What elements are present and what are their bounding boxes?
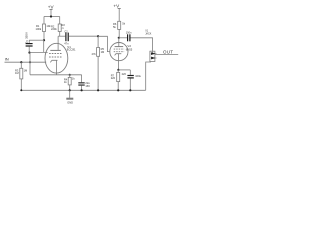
V1 cathode: [50, 60, 57, 62]
node input crossing: [29, 61, 31, 63]
svg-text:47k: 47k: [92, 52, 97, 56]
wire V1 plate to C2: [58, 35, 65, 37]
tube V1 ECC81: [45, 36, 76, 75]
V2 plate: [115, 46, 124, 48]
svg-text:IN: IN: [5, 56, 9, 61]
resistor R2: [51, 17, 65, 37]
capacitor C1 1u 350V: [25, 32, 33, 53]
capacitor C3 output: [126, 32, 132, 42]
ground: [66, 90, 73, 104]
svg-text:1k: 1k: [72, 77, 75, 81]
svg-text:5k: 5k: [122, 21, 125, 25]
node V2 plate junction: [118, 37, 120, 39]
svg-text:ECC81: ECC81: [67, 47, 76, 51]
V2 cathode lead: [117, 54, 119, 70]
resistor R3 1M grid leak: [15, 62, 27, 90]
resistor R5 V2 grid leak: [92, 36, 105, 90]
svg-text:100k: 100k: [36, 27, 42, 31]
wire input: [5, 61, 47, 63]
wire plate node to C3: [119, 37, 127, 39]
wire OUT: [155, 53, 178, 55]
capacitor C4 cathode bypass V2: [127, 70, 141, 90]
V1 cathode lead: [56, 60, 58, 75]
wire V1 cathode bus: [30, 74, 82, 76]
node A plate/filter junction: [43, 39, 45, 41]
wire node A down to grid wire: [43, 40, 45, 52]
wire grid node to V2 grid: [98, 36, 110, 51]
supply symbol +V left: [48, 5, 55, 17]
svg-text:1M: 1M: [24, 68, 28, 72]
V2 grid row 2: [114, 51, 124, 53]
svg-text:16V: 16V: [85, 84, 90, 88]
wire cathode node: [118, 69, 130, 71]
wire grid wire to V1: [30, 51, 48, 53]
svg-text:1M: 1M: [15, 71, 19, 75]
node rail junction: [50, 15, 52, 17]
svg-text:220: 220: [111, 76, 116, 80]
resistor R4 cathode V1: [64, 74, 75, 91]
node input / R3 junction: [20, 61, 22, 63]
node gnd R5: [97, 89, 99, 91]
V2 plate lead: [118, 38, 120, 47]
svg-text:1u 350V: 1u 350V: [25, 32, 29, 43]
wire C1 junction down to cathode bus: [29, 53, 31, 75]
resistor R1: [36, 17, 52, 41]
supply symbol +V right: [113, 4, 120, 22]
resistor R7 cathode V2: [111, 70, 127, 90]
svg-text:+V: +V: [113, 4, 120, 9]
node V2 grid / R5 junction: [97, 35, 99, 37]
capacitor C5 cathode bypass V1: [78, 75, 90, 91]
connector X1 output jack: [146, 51, 157, 90]
svg-text:6AS5: 6AS5: [126, 47, 133, 51]
svg-text:JACK: JACK: [145, 32, 152, 35]
node gnd C4: [129, 89, 131, 91]
capacitor C2: [64, 30, 69, 45]
svg-text:100u: 100u: [135, 74, 141, 78]
node V2 cathode junction: [117, 69, 119, 71]
svg-text:OUT: OUT: [163, 50, 173, 55]
svg-text:100n: 100n: [126, 32, 132, 35]
wire C2 to V2 grid node: [69, 35, 98, 37]
svg-text:+V: +V: [48, 5, 55, 10]
wire node A to C1: [29, 39, 44, 41]
resistor R6 plate load V2: [113, 21, 126, 38]
node gnd R3: [20, 89, 22, 91]
V1 plate lead: [57, 36, 59, 50]
node C1 bottom / grid junction: [28, 52, 30, 54]
wire ground bus: [21, 89, 145, 91]
V1 grid row 1: [49, 53, 62, 55]
node gnd R4: [69, 89, 71, 91]
svg-text:220: 220: [122, 72, 127, 76]
wire top rail: [44, 16, 60, 18]
svg-text:1M: 1M: [101, 50, 105, 54]
V1 grid row 2: [49, 56, 62, 58]
svg-text:GND: GND: [67, 100, 73, 104]
node gnd R7: [117, 89, 119, 91]
wire C3 to output jack: [131, 38, 153, 53]
V1 plate: [50, 49, 61, 51]
tube V2 6AS5: [110, 38, 133, 70]
V2 cathode: [115, 54, 122, 56]
svg-text:220k: 220k: [51, 27, 57, 31]
V2 grid row 1: [114, 48, 124, 50]
node gnd C5: [81, 89, 83, 91]
svg-text:47n: 47n: [64, 43, 69, 46]
